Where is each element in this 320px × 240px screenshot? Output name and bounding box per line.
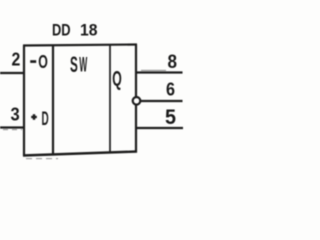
wire: pin 3 input (0, 126, 24, 128)
wire: pin 8 output (136, 71, 183, 73)
scan artifact dash on pin 3 wire (3, 129, 22, 131)
input label -O (30, 60, 36, 63)
input label +D (31, 116, 37, 118)
svg-text:3: 3 (11, 104, 20, 125)
wire: top edge of box (23, 45, 137, 46)
wire: divider 2 (right field) (109, 45, 111, 153)
wire: bottom edge of box (23, 152, 137, 156)
wire: pin 6 output (141, 100, 183, 102)
wire: right edge of box (135, 45, 137, 153)
svg-text:S: S (70, 52, 78, 77)
wire: left edge of box (23, 46, 25, 157)
svg-text:W: W (79, 54, 87, 77)
wire: pin 5 output (136, 127, 183, 129)
svg-text:DD: DD (52, 21, 71, 39)
svg-text:8: 8 (168, 51, 178, 73)
svg-text:2: 2 (12, 49, 21, 70)
svg-text:Q: Q (112, 66, 122, 90)
scan artifact dash above pin 8 wire (141, 69, 166, 71)
wire: pin 2 input (0, 72, 24, 74)
svg-text:D: D (42, 108, 49, 130)
svg-text:O: O (38, 51, 48, 72)
scan artifact dash below bottom edge (26, 158, 58, 160)
svg-text:18: 18 (80, 21, 98, 39)
inversion bubble on pin 6 (133, 97, 141, 105)
wire: divider 1 (left field) (52, 46, 54, 156)
svg-text:6: 6 (166, 79, 175, 100)
svg-text:5: 5 (165, 106, 176, 129)
